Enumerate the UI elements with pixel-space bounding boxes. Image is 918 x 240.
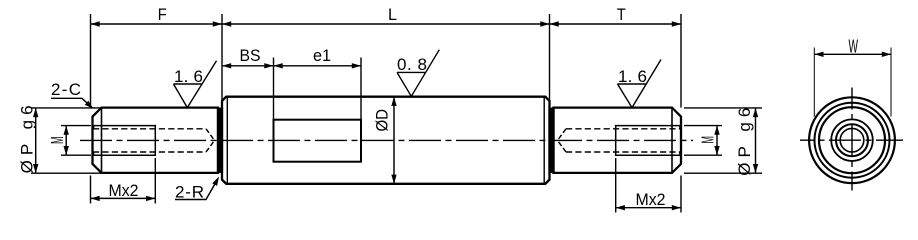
tap major circle (836, 124, 868, 156)
extension line slot right (360, 58, 362, 121)
right threaded end outline (554, 108, 682, 173)
dimension M left (65, 126, 67, 156)
left drill point cone (hidden) (206, 129, 215, 152)
right drill hole hidden line top (566, 128, 681, 130)
svg-text:ØD: ØD (373, 109, 392, 132)
body chamfer circle (815, 103, 890, 178)
dimension Mx2 left (91, 197, 156, 199)
M left extension bottom (61, 154, 91, 156)
Mx2 right extension left (615, 158, 617, 213)
svg-text:Mx2: Mx2 (109, 181, 139, 200)
dimension W (814, 53, 891, 55)
drill circle (840, 128, 864, 152)
svg-text:1. 6: 1. 6 (174, 67, 203, 86)
svg-text:ØP g6: ØP g6 (17, 105, 36, 173)
dimension L (222, 23, 550, 25)
svg-text:2-C: 2-C (51, 80, 81, 99)
extension line L/T shared (549, 14, 551, 101)
right drill hole hidden line bottom (566, 151, 681, 153)
thread chamfer circle (831, 119, 873, 161)
Mx2 left extension left (90, 176, 92, 204)
Mx2 left extension right (154, 158, 156, 204)
extension line slot left (273, 58, 275, 121)
svg-text:T: T (617, 5, 626, 24)
dia P g6 right extension top (684, 107, 762, 109)
W extension left (813, 48, 815, 117)
keyway slot (274, 120, 362, 162)
right neck undercut (thread runout) (548, 108, 554, 173)
svg-text:W: W (848, 37, 858, 57)
surface finish 1.6 right (618, 60, 662, 108)
right drill point cone (hidden) (558, 129, 567, 152)
svg-text:M: M (698, 136, 718, 144)
dimension Mx2 right (616, 207, 681, 209)
dimension dia P g6 right (755, 108, 757, 173)
extension line F left (90, 14, 92, 108)
left drill hole hidden line top (93, 128, 206, 130)
svg-text:Mx2: Mx2 (636, 190, 666, 209)
dia P g6 left extension top (31, 107, 101, 109)
body chamfer edge line right (543, 97, 545, 184)
svg-text:M: M (47, 136, 67, 144)
left threaded end outline (93, 108, 219, 173)
end view centerline vertical (851, 88, 853, 191)
svg-text:L: L (388, 5, 397, 24)
svg-text:0. 8: 0. 8 (397, 55, 427, 74)
thread OD circle (819, 107, 885, 173)
surface finish 1.6 left (174, 61, 217, 108)
left drill hole hidden line bottom (93, 151, 206, 153)
right tapped hole thread box (solid) (616, 126, 681, 156)
svg-text:1. 6: 1. 6 (618, 67, 647, 86)
dia P g6 left extension bottom (31, 172, 101, 174)
extension line T right (680, 14, 682, 108)
dimension M right (716, 126, 718, 156)
extension line F/L shared (221, 14, 223, 101)
centerline main view (80, 139, 693, 141)
svg-text:ØP g6: ØP g6 (735, 108, 754, 176)
dimension BS (222, 65, 274, 67)
svg-text:2-R: 2-R (175, 183, 204, 202)
surface finish 0.8 (397, 50, 439, 97)
svg-text:e1: e1 (313, 46, 331, 65)
Mx2 right extension right (680, 176, 682, 213)
left thread chamfer edge line (101, 108, 103, 173)
W extension right (890, 48, 892, 117)
left neck undercut (thread runout) (217, 108, 223, 173)
dimension F (91, 23, 223, 25)
left tapped hole thread box (solid) (93, 126, 155, 156)
dimension dia P g6 left (35, 108, 37, 173)
dia P g6 right extension bottom (684, 172, 762, 174)
svg-text:BS: BS (240, 46, 261, 65)
left hole mouth hidden ticks (93, 126, 95, 156)
M right extension top (684, 125, 722, 127)
right hole mouth hidden ticks (679, 126, 681, 156)
end view centerline horizontal (800, 139, 903, 141)
dimension dia D (393, 97, 395, 184)
body outline (222, 97, 550, 184)
M right extension bottom (684, 154, 722, 156)
body OD circle (809, 97, 895, 183)
svg-text:F: F (158, 5, 167, 24)
dimension e1 (274, 65, 362, 67)
body chamfer edge line left (226, 97, 228, 184)
M left extension top (61, 125, 91, 127)
dimension T (550, 23, 682, 25)
right thread chamfer edge line (671, 108, 673, 173)
